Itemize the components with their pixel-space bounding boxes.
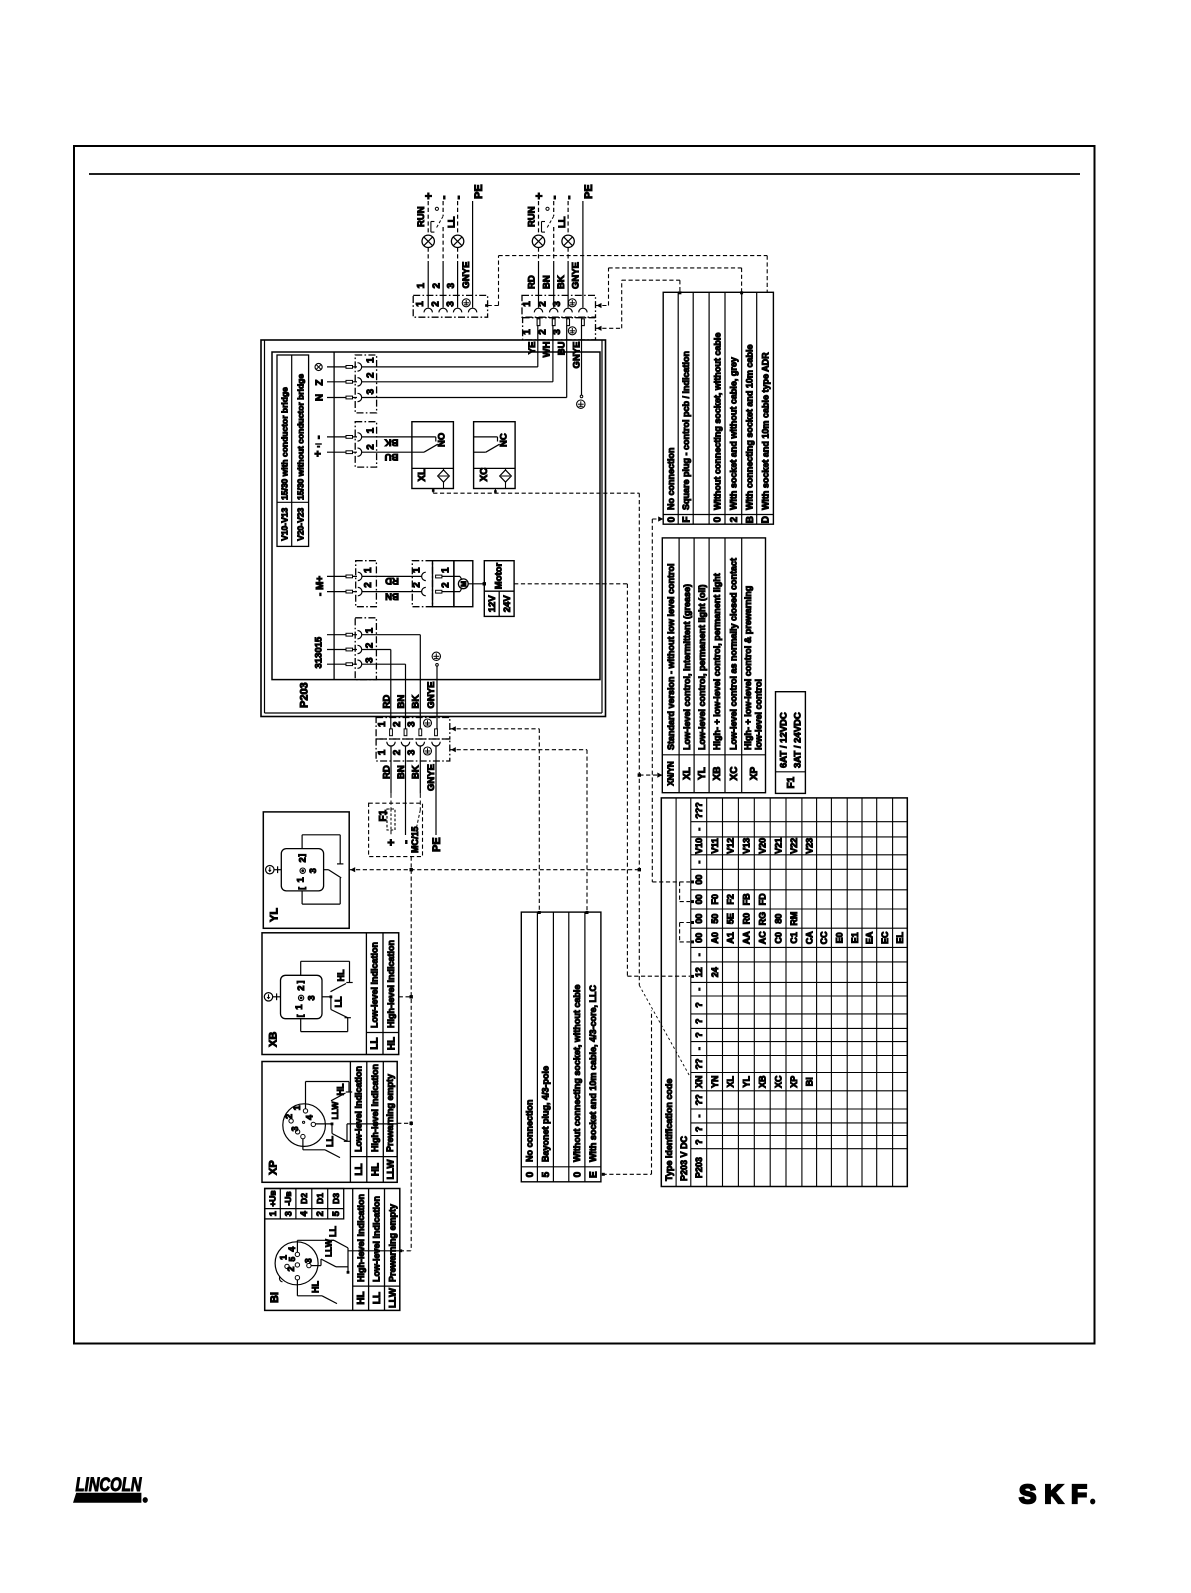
svg-text:0: 0 — [573, 1171, 584, 1177]
XP round connector — [283, 1104, 326, 1147]
svg-text:?: ? — [694, 1126, 704, 1132]
wire (00 connections) — [679, 882, 681, 902]
svg-text:80: 80 — [773, 914, 783, 924]
BI round connector — [275, 1242, 318, 1285]
svg-text:V11: V11 — [710, 838, 720, 854]
svg-text:High-level indication: High-level indication — [386, 940, 396, 1028]
svg-text:BI: BI — [269, 1292, 281, 1303]
lamp LL (A) — [451, 235, 463, 247]
svg-text:LLW: LLW — [324, 1238, 334, 1257]
svg-text:EL: EL — [895, 932, 905, 944]
svg-text:5: 5 — [541, 1171, 552, 1177]
wire RD — [362, 575, 422, 577]
terminal block X1 (N Z lamp) — [355, 355, 376, 413]
svg-text:®: ® — [1091, 1499, 1096, 1506]
svg-text:12V: 12V — [487, 595, 498, 613]
svg-text:2: 2 — [411, 582, 422, 588]
svg-text:3: 3 — [366, 389, 377, 395]
svg-text:PE: PE — [473, 184, 485, 199]
conductor bridge option table — [277, 355, 309, 546]
svg-text:LL: LL — [372, 1292, 383, 1304]
svg-text:HL: HL — [311, 1281, 321, 1293]
svg-text:XB: XB — [758, 1075, 768, 1088]
wire — [427, 248, 429, 262]
svg-text:5: 5 — [287, 1257, 297, 1262]
svg-text:XN: XN — [694, 1075, 704, 1088]
svg-text:Low-level indication: Low-level indication — [354, 1066, 364, 1152]
svg-text:+: + — [313, 451, 325, 457]
junction — [483, 582, 486, 585]
svg-text:BU: BU — [385, 451, 399, 462]
svg-text:12: 12 — [694, 967, 704, 977]
svg-text:XC: XC — [479, 468, 490, 482]
fuse F1 — [390, 794, 392, 809]
svg-text:EA: EA — [865, 931, 875, 944]
svg-text:HL: HL — [336, 1083, 346, 1095]
wire (vertical trunk to XB/XP/BI) — [410, 870, 412, 1251]
svg-text:YN: YN — [710, 1075, 720, 1088]
svg-text:-: - — [561, 196, 575, 200]
connector XB — [262, 933, 399, 1055]
svg-text:P203: P203 — [694, 1157, 704, 1178]
svg-text:M: M — [461, 581, 468, 587]
svg-text:LLW: LLW — [385, 1159, 396, 1179]
svg-text:LL: LL — [557, 216, 568, 228]
svg-text:HL: HL — [356, 1291, 367, 1304]
svg-text:1: 1 — [411, 567, 422, 573]
svg-text:AC: AC — [758, 931, 768, 944]
svg-text:?: ? — [694, 1018, 704, 1024]
svg-text:1: 1 — [292, 1105, 302, 1110]
svg-text:0: 0 — [713, 516, 724, 522]
svg-text:1: 1 — [296, 877, 307, 883]
wire (E cell riser) — [603, 1173, 652, 1175]
leader to XN cell — [639, 985, 690, 1077]
svg-text:NC: NC — [499, 433, 510, 447]
svg-text:E: E — [589, 1171, 600, 1178]
svg-text:D3: D3 — [331, 1193, 341, 1204]
svg-text:0: 0 — [666, 516, 677, 522]
svg-text:F0: F0 — [710, 894, 720, 905]
wire YE — [362, 366, 538, 368]
svg-text:-: - — [547, 196, 561, 200]
wire (arrow into XN/YN table) — [639, 774, 662, 776]
connector YL — [263, 812, 349, 928]
svg-text:2: 2 — [430, 301, 441, 307]
P203 bottom socket — [376, 739, 450, 761]
svg-text:XP: XP — [749, 767, 760, 781]
svg-text:LL: LL — [334, 996, 344, 1007]
svg-text:V10-V13: V10-V13 — [279, 507, 289, 540]
svg-text:4: 4 — [287, 1247, 297, 1252]
svg-text:®: ® — [143, 1498, 148, 1505]
svg-text:Low-level control, permanent l: Low-level control, permanent light (oil) — [697, 584, 707, 750]
svg-text:0: 0 — [525, 1171, 536, 1177]
wire (XP output) — [331, 1123, 333, 1125]
svg-text:50: 50 — [710, 914, 720, 924]
svg-text:V10: V10 — [694, 838, 704, 854]
svg-text:2: 2 — [315, 1211, 326, 1216]
svg-text:-: - — [436, 196, 450, 200]
svg-text:BI: BI — [805, 1077, 815, 1086]
svg-text:2: 2 — [297, 857, 308, 862]
wire to pin 1 — [362, 634, 421, 636]
fuse rating table F1 — [776, 692, 806, 794]
svg-text:2: 2 — [365, 642, 376, 648]
svg-text:-: - — [694, 828, 704, 831]
border frame — [74, 146, 1095, 1344]
option table (level control) — [662, 538, 765, 793]
svg-text:[: [ — [296, 1014, 305, 1017]
svg-text:V20-V23: V20-V23 — [295, 507, 305, 540]
svg-text:A0: A0 — [710, 932, 720, 944]
svg-text:LL: LL — [370, 1037, 381, 1049]
svg-text:-: - — [694, 1047, 704, 1050]
svg-text:WH: WH — [542, 341, 553, 357]
pressure switch (A) — [435, 207, 438, 210]
wire (motor option drop) — [626, 584, 628, 976]
node lamp symbol — [315, 363, 322, 370]
svg-text:2: 2 — [284, 1114, 294, 1119]
svg-text:1: 1 — [415, 301, 426, 307]
svg-text:F: F — [681, 517, 692, 523]
svg-text:1: 1 — [416, 283, 427, 289]
svg-text:With socket and 10m cable type: With socket and 10m cable type ADR — [760, 352, 770, 510]
svg-text:00: 00 — [694, 894, 704, 904]
svg-text:1: 1 — [366, 427, 377, 433]
earth terminal — [462, 299, 470, 307]
svg-text:?: ? — [694, 1002, 704, 1008]
BI pin table — [265, 1189, 344, 1219]
svg-text:1: 1 — [377, 721, 388, 727]
YL socket symbol — [281, 849, 323, 891]
svg-text:??: ?? — [694, 1094, 704, 1105]
svg-text:No connection: No connection — [666, 448, 676, 511]
P203 pump enclosure (outer) — [261, 340, 606, 717]
svg-text:LL: LL — [354, 1163, 365, 1175]
svg-text:Low-level indication: Low-level indication — [372, 1196, 382, 1282]
svg-text:-Uʙ: -Uʙ — [283, 1191, 293, 1205]
svg-text:1: 1 — [268, 1210, 279, 1216]
wire — [457, 201, 459, 235]
svg-text:Low-level indication: Low-level indication — [369, 942, 379, 1028]
svg-text:3: 3 — [365, 657, 376, 663]
wire (dashed to option table) — [597, 303, 602, 308]
svg-text:CC: CC — [819, 931, 829, 944]
svg-text:EC: EC — [880, 931, 890, 944]
wire stubs — [327, 366, 357, 368]
svg-text:Square plug - control pcb / in: Square plug - control pcb / indication — [681, 351, 691, 510]
internal bus wire — [333, 352, 335, 680]
connector XP — [262, 1062, 397, 1183]
lamp RUN (B) — [532, 235, 544, 247]
wire BN — [362, 591, 422, 593]
svg-text:1: 1 — [522, 301, 533, 307]
svg-text:2: 2 — [729, 516, 740, 522]
svg-text:D2: D2 — [299, 1193, 309, 1204]
svg-text:RD: RD — [381, 695, 392, 709]
svg-text:XC: XC — [773, 1075, 783, 1088]
svg-text:High- + low-level control & pr: High- + low-level control & prewarning — [743, 586, 753, 750]
svg-text:3: 3 — [407, 749, 418, 755]
svg-text:E0: E0 — [835, 932, 845, 943]
connector BI — [265, 1189, 400, 1311]
wire BK — [362, 436, 412, 438]
svg-text:RD: RD — [526, 275, 537, 289]
svg-text:XC: XC — [729, 767, 740, 781]
svg-text:YL: YL — [697, 767, 708, 780]
socket strip B — [522, 295, 596, 317]
wire (level-control bus) — [349, 869, 639, 871]
svg-text:4: 4 — [299, 1210, 310, 1216]
svg-text:NO: NO — [437, 433, 448, 447]
option table (plug/socket codes) — [663, 292, 773, 524]
svg-text:2: 2 — [392, 721, 403, 727]
svg-text:00: 00 — [694, 875, 704, 885]
svg-text:3: 3 — [552, 301, 563, 307]
svg-text:1: 1 — [522, 329, 533, 335]
lamp RUN (A) — [422, 235, 434, 247]
svg-text:F2: F2 — [726, 894, 736, 905]
svg-text:LL: LL — [328, 1226, 338, 1237]
motor plug block — [433, 561, 454, 607]
svg-text:LL: LL — [446, 216, 457, 228]
earth point — [432, 652, 440, 660]
svg-text:2: 2 — [363, 582, 374, 588]
svg-text:Z: Z — [314, 379, 325, 385]
svg-text:-: - — [694, 861, 704, 864]
motor M — [454, 561, 473, 607]
svg-text:3: 3 — [445, 301, 456, 307]
svg-text:GNYE: GNYE — [426, 764, 437, 791]
svg-text:Without connecting socket, wit: Without connecting socket, without cable — [572, 985, 582, 1162]
XP internal circuit — [305, 1082, 307, 1109]
wire BU — [362, 397, 567, 399]
svg-text:-: - — [694, 988, 704, 991]
terminal block X3 (motor) — [356, 561, 377, 607]
wire (dashed to option table D) — [485, 304, 488, 307]
svg-text:3: 3 — [304, 1258, 314, 1263]
BI internal circuit — [296, 1240, 298, 1252]
wire (YL output) — [350, 867, 355, 872]
svg-text:1: 1 — [441, 567, 452, 573]
wire (dashed drop) — [410, 857, 412, 870]
svg-text:+: + — [384, 839, 398, 846]
wire (relay outputs dashed) — [432, 489, 435, 492]
terminal block 313015 — [355, 618, 376, 680]
svg-text:BK: BK — [385, 437, 399, 448]
svg-text:F1: F1 — [786, 776, 797, 788]
svg-text:V21: V21 — [773, 838, 783, 854]
svg-text:Motor: Motor — [493, 563, 504, 590]
svg-text:5E: 5E — [726, 913, 736, 924]
svg-text:+: + — [422, 192, 436, 199]
wire BU — [362, 451, 424, 453]
pressure switch (B) — [546, 207, 549, 210]
XB socket symbol — [281, 975, 323, 1018]
svg-text:5: 5 — [331, 1210, 342, 1216]
svg-text:XB: XB — [267, 1032, 279, 1047]
svg-text:-: - — [694, 953, 704, 956]
svg-text:XL: XL — [417, 469, 428, 482]
svg-text:FB: FB — [742, 893, 752, 905]
svg-text:[: [ — [298, 887, 307, 890]
wire — [442, 201, 444, 216]
svg-text:24: 24 — [710, 967, 720, 977]
P203 control module box — [272, 352, 600, 680]
svg-text:MC/15: MC/15 — [410, 826, 420, 853]
battery symbol — [315, 443, 322, 445]
motor socket block — [412, 561, 432, 607]
svg-text:PE: PE — [583, 184, 595, 199]
svg-text:High-level indication: High-level indication — [356, 1194, 366, 1282]
svg-text:BK: BK — [556, 275, 567, 289]
relay contact XL (NO) — [412, 422, 454, 489]
svg-text:2: 2 — [537, 329, 548, 335]
title rule — [89, 173, 1080, 175]
wire to pin 3 — [362, 663, 406, 665]
svg-text:High- + low-level control, per: High- + low-level control, permanent lig… — [712, 573, 722, 750]
svg-text:XB: XB — [712, 767, 723, 781]
svg-text:HL: HL — [336, 969, 346, 981]
svg-text:low-level control: low-level control — [754, 679, 764, 750]
terminal block X2 (supply) — [355, 422, 376, 467]
svg-text:CA: CA — [805, 931, 815, 944]
svg-text:With socket and without cable,: With socket and without cable, grey — [729, 357, 739, 510]
svg-text:3: 3 — [284, 1211, 295, 1216]
wire (plug option drops to code table) — [450, 728, 540, 730]
svg-text:HL: HL — [386, 1037, 397, 1050]
svg-text:Low-level control as normally: Low-level control as normally closed con… — [729, 558, 739, 750]
svg-text:With connecting socket and 10m: With connecting socket and 10m cable — [744, 345, 754, 510]
svg-text:1: 1 — [377, 749, 388, 755]
svg-text:00: 00 — [694, 914, 704, 924]
svg-text:High-level indication: High-level indication — [370, 1064, 380, 1152]
svg-text:B: B — [745, 516, 756, 523]
svg-text:00: 00 — [694, 933, 704, 943]
svg-text:V13: V13 — [742, 838, 752, 854]
svg-text:Without connecting socket, wit: Without connecting socket, without cable — [712, 333, 722, 510]
svg-text:RD: RD — [385, 575, 399, 586]
svg-text:3: 3 — [306, 995, 317, 1000]
svg-text:A1: A1 — [726, 932, 736, 944]
type identification code table — [661, 798, 907, 1187]
svg-text:AA: AA — [742, 931, 752, 944]
svg-text:XP: XP — [267, 1160, 279, 1175]
svg-text:With socket and 10m cable, 4/3: With socket and 10m cable, 4/3-core, LLC — [588, 985, 598, 1162]
svg-text:BN: BN — [542, 275, 553, 289]
svg-text:XN/YN: XN/YN — [667, 761, 676, 786]
wires below connector — [390, 761, 392, 794]
svg-text:3: 3 — [446, 283, 457, 289]
svg-text:PE: PE — [431, 837, 443, 852]
svg-text:+Uʙ: +Uʙ — [268, 1190, 278, 1206]
svg-text:15/30 with conductor bridge: 15/30 with conductor bridge — [279, 387, 289, 500]
wire (code 0 drop) — [652, 518, 663, 520]
svg-text:??: ?? — [694, 1059, 704, 1070]
svg-text:3: 3 — [308, 868, 319, 873]
svg-text:1: 1 — [366, 357, 377, 363]
svg-text:24V: 24V — [502, 595, 513, 613]
svg-text:V12: V12 — [726, 838, 736, 854]
plug strip B — [523, 318, 596, 340]
svg-text:6AT / 12VDC: 6AT / 12VDC — [778, 712, 789, 768]
svg-text:SKF: SKF — [1019, 1479, 1091, 1509]
svg-text:Prewarning empty: Prewarning empty — [387, 1204, 397, 1282]
lamp LL (B) — [562, 235, 574, 247]
wire (BI output) — [348, 1250, 400, 1252]
svg-text:YL: YL — [268, 908, 280, 922]
terminal strip A — [413, 295, 487, 317]
svg-text:R0: R0 — [742, 913, 752, 925]
svg-text:No connection: No connection — [525, 1100, 535, 1163]
svg-text:3AT / 24VDC: 3AT / 24VDC — [792, 712, 803, 768]
connection code table — [521, 912, 601, 1182]
svg-text:4: 4 — [305, 1115, 315, 1120]
svg-text:V20: V20 — [758, 838, 768, 854]
svg-text:Prewarning empty: Prewarning empty — [385, 1074, 395, 1152]
svg-text:XL: XL — [726, 1075, 736, 1087]
svg-text:D1: D1 — [315, 1193, 325, 1204]
svg-text:2: 2 — [392, 749, 403, 755]
svg-text:]: ] — [298, 854, 307, 857]
svg-text:3: 3 — [290, 1126, 300, 1131]
svg-text:BN: BN — [385, 590, 399, 601]
svg-text:RUN: RUN — [526, 206, 537, 227]
P203 bottom plug — [376, 718, 450, 740]
svg-text:V23: V23 — [805, 838, 815, 854]
svg-text:XL: XL — [682, 767, 693, 780]
svg-text:RUN: RUN — [416, 206, 427, 227]
wire PE — [472, 201, 474, 308]
motor voltage table — [484, 561, 514, 617]
svg-text:F1: F1 — [378, 809, 389, 821]
svg-text:-: - — [313, 435, 325, 439]
svg-text:2: 2 — [537, 301, 548, 307]
svg-text:RG: RG — [758, 912, 768, 926]
svg-text:C0: C0 — [773, 932, 783, 944]
svg-text:2: 2 — [431, 283, 442, 289]
svg-text:GNYE: GNYE — [426, 682, 437, 709]
svg-text:2: 2 — [366, 372, 377, 378]
svg-text:BN: BN — [396, 695, 407, 709]
wire WH — [362, 381, 553, 383]
svg-text:FD: FD — [758, 893, 768, 905]
svg-text:LLW: LLW — [330, 1101, 340, 1120]
svg-text:P203 V DC: P203 V DC — [679, 1135, 689, 1181]
wire — [427, 201, 429, 235]
svg-text:15/30 without conductor bridge: 15/30 without conductor bridge — [295, 374, 305, 500]
svg-text:+: + — [532, 192, 546, 199]
svg-text:YL: YL — [742, 1075, 752, 1087]
svg-text:3: 3 — [552, 329, 563, 335]
svg-text:V22: V22 — [789, 838, 799, 854]
svg-text:D: D — [761, 516, 772, 523]
YL internal circuit — [301, 835, 303, 849]
wire (motor dashed) — [514, 583, 627, 585]
svg-text:2: 2 — [296, 986, 307, 991]
svg-text:P203: P203 — [299, 682, 311, 708]
wire (XB output) — [399, 996, 412, 998]
svg-text:2: 2 — [441, 582, 452, 588]
svg-text:BU: BU — [557, 341, 568, 355]
svg-text:-: - — [451, 196, 465, 200]
svg-text:Standard version - without low: Standard version - without low level con… — [666, 563, 676, 750]
svg-text:LLW: LLW — [388, 1288, 399, 1308]
svg-text:313015: 313015 — [314, 636, 325, 668]
svg-text:N: N — [314, 394, 325, 401]
svg-text:GNYE: GNYE — [571, 342, 582, 369]
